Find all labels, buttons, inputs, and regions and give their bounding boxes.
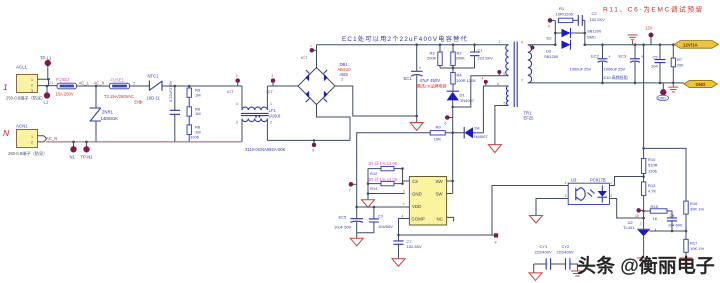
resistor R5	[187, 85, 201, 98]
svg-text:3: 3	[271, 74, 273, 78]
ground (striped) on GND bus	[668, 83, 678, 92]
thermistor NTC1	[147, 74, 163, 101]
svg-text:222/400V: 222/400V	[557, 249, 574, 254]
svg-text:200K: 200K	[456, 56, 466, 61]
ground (hot) at EC1	[410, 115, 423, 131]
svg-text:ABS: ABS	[340, 72, 349, 77]
svg-text:6: 6	[445, 122, 447, 126]
ground (striped) TL431 anode	[637, 258, 650, 263]
svg-text:SB1200: SB1200	[587, 29, 602, 34]
wire SW pin stubs	[447, 181, 453, 194]
svg-text:C9: C9	[670, 214, 675, 218]
svg-text:分体: 分体	[134, 99, 143, 106]
svg-text:1N4007: 1N4007	[460, 98, 475, 103]
svg-text:GND: GND	[696, 82, 706, 87]
svg-text:C5: C5	[653, 55, 659, 60]
svg-text:2 L: 2 L	[49, 81, 54, 85]
wire bridge top to DC+ rail	[316, 45, 318, 68]
svg-text:AC_L: AC_L	[79, 80, 90, 85]
svg-text:3: 3	[236, 121, 238, 125]
varistor ZNR1	[90, 85, 119, 142]
wire diode risers	[555, 20, 585, 44]
wire fuse2 to junction	[77, 85, 110, 87]
capacitor C5	[651, 43, 666, 83]
resistor R12	[368, 161, 403, 176]
test point ICT 2	[227, 74, 240, 94]
svg-text:2: 2	[270, 121, 272, 125]
resistor R9	[430, 125, 464, 142]
svg-text:C7: C7	[407, 239, 413, 244]
test point 4	[482, 77, 488, 87]
common mode choke LF1	[236, 86, 281, 142]
svg-text:ACN1: ACN1	[16, 124, 28, 129]
bridge rectifier DB1	[298, 62, 351, 105]
svg-text:需选CK品牌电容: 需选CK品牌电容	[417, 82, 447, 88]
ground (striped) CY2 side	[571, 271, 584, 276]
svg-text:R10: R10	[648, 157, 656, 162]
svg-text:4.7K: 4.7K	[648, 189, 657, 194]
svg-text:7: 7	[349, 189, 351, 193]
svg-text:1: 1	[610, 181, 612, 185]
svg-text:2: 2	[610, 194, 612, 198]
capacitor EC5	[334, 207, 363, 233]
svg-text:10K 1%: 10K 1%	[690, 246, 704, 251]
ground (hot) under C7	[392, 259, 405, 267]
svg-text:D2: D2	[547, 36, 553, 41]
wire 12V feedback tap	[643, 45, 645, 159]
svg-text:15A 250V: 15A 250V	[56, 92, 74, 97]
svg-text:ICT: ICT	[267, 89, 274, 94]
svg-text:1M: 1M	[195, 92, 201, 97]
svg-text:222/400V: 222/400V	[535, 249, 552, 254]
capacitor EC2	[570, 43, 612, 83]
svg-text:1: 1	[3, 82, 8, 92]
svg-text:2: 2	[236, 74, 238, 78]
svg-text:R11、C6-为EMC调试预留: R11、C6-为EMC调试预留	[603, 5, 704, 14]
svg-text:102-50V: 102-50V	[407, 244, 422, 249]
svg-text:2: 2	[133, 81, 135, 85]
svg-text:R14: R14	[370, 186, 378, 191]
svg-text:4: 4	[565, 181, 567, 185]
svg-text:1206: 1206	[190, 135, 200, 140]
wire choke to bridge	[267, 85, 298, 87]
svg-text:3: 3	[503, 72, 505, 76]
fuse FUSE1	[104, 78, 143, 106]
svg-text:1M: 1M	[195, 129, 201, 134]
svg-text:3: 3	[565, 194, 567, 198]
svg-text:R1: R1	[559, 6, 565, 11]
wire VDD feed corner	[357, 133, 431, 207]
test point 9b on pin3 wire	[498, 70, 502, 76]
svg-text:UU9.8: UU9.8	[269, 113, 282, 118]
svg-text:COMP: COMP	[412, 216, 425, 221]
svg-text:NTC1: NTC1	[148, 74, 160, 79]
ground (hot) opto	[530, 216, 543, 224]
svg-text:1: 1	[403, 202, 405, 206]
resistor R4	[451, 68, 477, 91]
test point TP-L1	[40, 56, 52, 81]
svg-text:12V/1A: 12V/1A	[683, 42, 698, 47]
svg-text:1: 1	[270, 102, 272, 106]
svg-text:EC1处可以用2个22uF400V电容替代: EC1处可以用2个22uF400V电容替代	[342, 35, 468, 43]
svg-text:0.22uF275V: 0.22uF275V	[168, 80, 173, 102]
wire SW vertical	[452, 107, 454, 194]
svg-text:3: 3	[31, 89, 33, 93]
svg-text:PC817B: PC817B	[590, 178, 606, 183]
wire DC+ rail	[317, 44, 509, 46]
wire COMP to C7 node	[399, 219, 410, 236]
test point GND	[657, 83, 669, 101]
svg-text:C1: C1	[478, 47, 484, 52]
resistor R14	[368, 177, 403, 191]
diode D3	[544, 40, 571, 59]
wire NC pin hook	[447, 217, 454, 221]
wire R12/R14 right vertical to CS	[403, 169, 410, 184]
svg-text:R17: R17	[690, 240, 698, 245]
svg-text:1: 1	[31, 78, 33, 82]
transformer TR1	[497, 40, 534, 121]
svg-text:EC5: EC5	[339, 215, 348, 220]
svg-text:N1: N1	[70, 155, 76, 160]
svg-text:GND: GND	[658, 96, 666, 100]
wire AC_N rail left	[46, 141, 242, 143]
svg-text:1: 1	[310, 44, 312, 48]
test point 7	[349, 182, 357, 192]
wire aux pin5 to ground	[495, 106, 509, 145]
svg-text:1N4007: 1N4007	[474, 134, 489, 139]
wire D1 node to TR1 pin3	[453, 76, 509, 107]
port GND	[684, 80, 718, 87]
resistor R8	[187, 116, 201, 142]
wire opto LED cathode return	[609, 199, 643, 219]
svg-text:TL431: TL431	[623, 225, 635, 230]
svg-text:250-0.8端子（防呆）: 250-0.8端子（防呆）	[6, 95, 45, 102]
svg-text:1000uF 25V: 1000uF 25V	[570, 67, 592, 72]
svg-text:SMC: SMC	[587, 34, 596, 39]
ground (hot) CY1 side	[529, 264, 542, 280]
diode D4	[464, 126, 488, 140]
svg-text:AC_X: AC_X	[94, 80, 105, 85]
svg-text:R16: R16	[690, 201, 698, 206]
power symbol on rail	[628, 35, 638, 45]
resistor R17	[684, 239, 705, 257]
svg-text:1R @ 1% 12 06: 1R @ 1% 12 06	[368, 161, 398, 166]
svg-text:FUSE1: FUSE1	[111, 78, 125, 83]
wire clamp node	[440, 67, 475, 69]
resistor R16	[684, 201, 705, 240]
svg-text:TP-N1: TP-N1	[81, 155, 94, 160]
ground (hot) aux	[488, 145, 501, 153]
test point ICT 3	[267, 74, 276, 94]
svg-text:200K: 200K	[427, 56, 437, 61]
capacitor CY2	[551, 244, 578, 271]
svg-text:1206: 1206	[648, 168, 658, 173]
svg-text:D1: D1	[460, 92, 466, 97]
svg-text:R7: R7	[677, 57, 683, 62]
svg-text:TP-L1: TP-L1	[40, 56, 52, 61]
optocoupler U3	[565, 178, 613, 205]
svg-text:4: 4	[482, 77, 484, 81]
test point on pin9	[531, 46, 535, 50]
svg-text:R15: R15	[651, 204, 659, 209]
capacitor C3	[369, 207, 393, 233]
svg-text:4: 4	[497, 82, 499, 86]
svg-text:头条 @衡丽电子: 头条 @衡丽电子	[577, 254, 715, 277]
resistor R6	[187, 97, 201, 116]
svg-text:+: +	[608, 54, 611, 59]
test point ICT 1	[301, 44, 317, 60]
svg-text:VDD: VDD	[412, 204, 421, 209]
svg-text:1: 1	[499, 40, 501, 44]
svg-text:510R: 510R	[648, 163, 658, 168]
svg-text:SB1200: SB1200	[544, 54, 559, 59]
connector ACN1	[8, 124, 47, 157]
svg-text:9: 9	[521, 41, 523, 45]
svg-text:+: +	[419, 66, 422, 71]
test point 12V	[645, 26, 653, 45]
svg-text:104-50V: 104-50V	[668, 223, 683, 227]
svg-text:EC2: EC2	[591, 54, 600, 59]
svg-text:10: 10	[635, 214, 639, 218]
svg-text:4: 4	[402, 214, 404, 218]
wire tap to R16	[644, 148, 686, 201]
svg-text:8: 8	[495, 241, 497, 245]
svg-text:4: 4	[236, 102, 238, 106]
svg-text:AC_N: AC_N	[46, 136, 57, 141]
wire GND bus	[528, 82, 684, 84]
svg-text:10D-11: 10D-11	[147, 96, 161, 101]
svg-text:100R 1206: 100R 1206	[456, 78, 476, 83]
svg-text:7: 7	[521, 79, 523, 83]
resistor R10	[641, 157, 657, 182]
wire ACL1 pin stubs	[38, 79, 58, 85]
wire opto emitter to ground	[536, 199, 568, 216]
test point L1	[44, 85, 50, 105]
svg-text:2: 2	[640, 222, 642, 226]
wire fuse1 to NTC1	[130, 85, 150, 87]
capacitor C2	[578, 11, 605, 26]
ground (hot) at IC GND	[362, 194, 375, 208]
svg-text:C3: C3	[378, 214, 384, 219]
svg-text:N: N	[3, 128, 10, 138]
capacitor EC1	[404, 43, 447, 116]
svg-text:14D681K: 14D681K	[101, 116, 119, 121]
svg-text:ICT: ICT	[227, 89, 234, 94]
wire secondary pin9 to rail	[528, 44, 556, 46]
svg-text:U3: U3	[571, 178, 577, 183]
svg-text:222 2KV: 222 2KV	[478, 56, 494, 61]
svg-text:104/50V: 104/50V	[378, 224, 393, 229]
test point TP-N1	[81, 141, 94, 160]
svg-text:ICT: ICT	[301, 55, 308, 60]
svg-text:E10 高频低阻: E10 高频低阻	[604, 74, 628, 80]
svg-text:2: 2	[31, 141, 33, 145]
test point 10	[635, 208, 644, 218]
svg-text:L1: L1	[44, 100, 49, 105]
svg-text:5: 5	[312, 149, 314, 153]
svg-text:T3.15A/250VAC: T3.15A/250VAC	[104, 94, 134, 99]
svg-text:3: 3	[341, 78, 343, 82]
wire VDD rail	[357, 206, 410, 208]
ground (hot) under EC5/C3	[350, 233, 374, 246]
svg-text:R13: R13	[648, 183, 656, 188]
svg-text:R12: R12	[370, 171, 378, 176]
svg-text:CY2: CY2	[562, 244, 571, 249]
resistor R2	[451, 43, 465, 68]
svg-text:CS: CS	[412, 179, 418, 184]
test point 5	[312, 139, 316, 152]
wire bridge right to DC-	[335, 86, 417, 116]
capacitor C9	[667, 214, 683, 231]
svg-text:2: 2	[403, 189, 405, 193]
svg-text:10uF 50V: 10uF 50V	[334, 225, 352, 230]
svg-text:FUSE2: FUSE2	[56, 77, 70, 82]
wire opto LED anode to R10/R13 node	[609, 177, 643, 186]
resistor R15	[642, 204, 672, 221]
svg-text:R4: R4	[457, 73, 463, 78]
test point 8	[492, 234, 498, 245]
resistor R1	[556, 6, 579, 23]
op-amp U1 switcher IC	[402, 177, 447, 226]
wire R12/R14 left vertical to GND pin	[368, 169, 405, 194]
svg-text:LF1: LF1	[269, 108, 277, 113]
diode D2	[547, 28, 603, 41]
capacitor C7	[393, 235, 422, 259]
capacitor C1	[470, 43, 493, 68]
capacitor EC3	[604, 43, 645, 83]
svg-text:1M: 1M	[195, 111, 201, 116]
svg-text:1: 1	[31, 135, 33, 139]
wire NTC1 to choke	[162, 85, 242, 87]
svg-text:1000uF 25V: 1000uF 25V	[604, 67, 626, 72]
svg-text:EC1: EC1	[404, 76, 413, 81]
svg-text:CY1: CY1	[540, 244, 549, 249]
svg-text:12V: 12V	[645, 26, 653, 31]
svg-text:10R: 10R	[434, 137, 441, 142]
resistor R3	[427, 43, 442, 68]
capacitor CX 0.22uF275V	[168, 80, 180, 142]
diode D1	[447, 91, 475, 107]
test point 9	[548, 18, 555, 28]
svg-text:104: 104	[651, 63, 658, 68]
svg-text:9: 9	[548, 25, 550, 29]
wire 12V rail	[585, 44, 674, 46]
wire bridge bottom jog to AC_N rail	[267, 105, 350, 141]
wire TL431 REF line	[649, 230, 686, 232]
svg-text:39K 1%: 39K 1%	[690, 206, 704, 211]
test point N1	[70, 141, 77, 160]
svg-text:ACL1: ACL1	[16, 65, 28, 70]
fuse FUSE2	[56, 77, 77, 97]
svg-text:3110-0GNA092A-00K: 3110-0GNA092A-00K	[245, 147, 286, 152]
connector ACL1	[6, 65, 45, 102]
svg-text:EF25: EF25	[524, 116, 535, 121]
capacitor CY1	[534, 244, 552, 270]
resistor R7	[671, 43, 684, 83]
shunt regulator U2 TL431	[623, 220, 657, 258]
svg-text:102 2KV: 102 2KV	[590, 17, 606, 22]
svg-text:2: 2	[31, 84, 33, 88]
svg-text:20K: 20K	[677, 62, 684, 67]
svg-text:D4: D4	[475, 126, 481, 131]
svg-text:SW: SW	[436, 179, 444, 184]
node SW junction under D1	[451, 106, 454, 109]
svg-text:GND: GND	[412, 191, 422, 196]
svg-text:EC3: EC3	[619, 54, 628, 59]
svg-text:ZNR1: ZNR1	[102, 110, 114, 115]
svg-text:R9: R9	[436, 125, 442, 130]
ground (striped) under R17	[680, 258, 693, 263]
wire COMP to opto	[399, 186, 569, 236]
svg-text:NC: NC	[437, 216, 443, 221]
svg-text:10R/1206: 10R/1206	[556, 11, 574, 16]
resistor R13	[641, 182, 656, 229]
wire D4 anode to aux pin4	[483, 86, 508, 133]
svg-text:D3: D3	[546, 49, 552, 54]
svg-text:C2: C2	[592, 11, 598, 16]
port 12V/1A	[674, 41, 718, 49]
svg-text:SW: SW	[436, 191, 444, 196]
svg-text:1K: 1K	[653, 216, 658, 221]
test point 6	[445, 116, 453, 126]
svg-text:47uF 450V: 47uF 450V	[420, 78, 441, 83]
svg-text:250-0.8端子（防呆）: 250-0.8端子（防呆）	[8, 150, 47, 157]
